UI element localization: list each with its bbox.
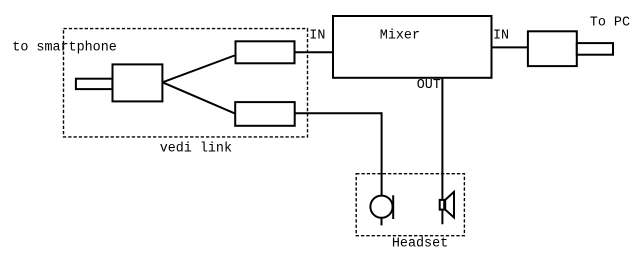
microphone MK1: side bar <box>392 195 394 219</box>
svg-text:to smartphone: to smartphone <box>12 41 116 56</box>
PC plug P2 <box>577 43 613 55</box>
dashed group box: vedi link <box>64 29 308 137</box>
speaker LS1: cone <box>445 192 454 218</box>
speaker LS1: driver rect <box>440 200 445 210</box>
microphone MK1: body circle <box>370 196 392 218</box>
bottom jack J2 <box>235 102 295 126</box>
splitter box U1 <box>113 64 163 101</box>
svg-text:vedi link: vedi link <box>160 141 232 156</box>
mixer box U2 <box>333 16 492 78</box>
dashed group box: Headset <box>356 174 464 236</box>
wire top jack to mixer IN <box>295 51 334 53</box>
wire mixer OUT to speaker (vertical) <box>441 79 443 225</box>
wire splitter to bottom jack <box>163 82 235 113</box>
svg-text:Headset: Headset <box>392 237 448 252</box>
wire bottom jack to mic (vertical) <box>381 112 383 195</box>
svg-text:IN: IN <box>309 29 325 44</box>
wire mixer to PC adapter <box>492 46 528 48</box>
wire splitter to top jack <box>163 56 235 83</box>
svg-text:IN: IN <box>493 29 509 44</box>
wire bottom jack to mic (horizontal) <box>295 112 382 114</box>
svg-text:To PC: To PC <box>590 16 630 31</box>
smartphone plug P1 <box>76 79 113 89</box>
PC adapter box U3 <box>528 31 577 66</box>
svg-text:OUT: OUT <box>417 78 441 93</box>
top jack J1 <box>236 41 295 63</box>
microphone MK1: bottom stub <box>381 218 383 226</box>
svg-text:Mixer: Mixer <box>380 29 420 44</box>
